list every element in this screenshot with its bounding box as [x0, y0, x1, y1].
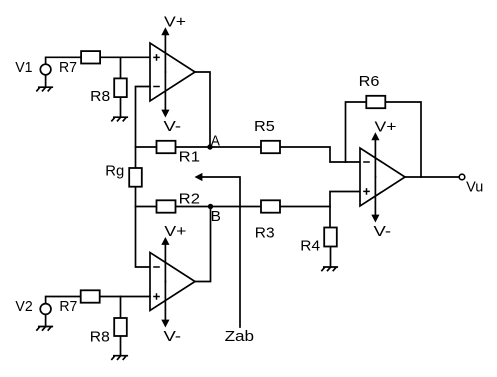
output terminal Vu [459, 174, 465, 180]
Zab measurement arrow [202, 177, 240, 327]
pin + of U3 [363, 188, 370, 195]
resistor R3 [261, 200, 280, 212]
resistor R7 (top) [81, 51, 100, 63]
wire U3 output to Vu terminal [405, 176, 459, 178]
svg-text:V+: V+ [375, 118, 397, 135]
resistor R5 [261, 141, 280, 153]
svg-text:R4: R4 [300, 238, 320, 255]
svg-text:Rg: Rg [105, 163, 124, 180]
svg-text:R8: R8 [90, 88, 110, 105]
wire tee to R8 (bottom) [120, 297, 122, 356]
resistor R4 [324, 228, 337, 247]
wire R3 node down through R4 to ground [329, 207, 332, 268]
wire U2 output up to node B [195, 207, 211, 282]
power V- arrow (U3) [374, 177, 376, 215]
resistor R2 [157, 200, 176, 212]
node A junction dot [207, 144, 212, 149]
pin - of U3 [363, 161, 370, 163]
pin + of U2 [153, 293, 160, 300]
wire node A horizontal run [136, 147, 361, 162]
svg-text:Zab: Zab [225, 328, 255, 345]
svg-text:R6: R6 [359, 73, 380, 90]
op-amp U1 (top) [150, 43, 195, 101]
ground (under R8 bottom) [111, 356, 128, 360]
svg-text:A: A [211, 133, 220, 150]
power V+ arrow (U1) [164, 35, 166, 72]
svg-text:V+: V+ [164, 13, 186, 30]
svg-text:R7: R7 [59, 59, 77, 76]
wire U1 - input feedback down to A net and Rg [136, 87, 151, 268]
svg-text:R1: R1 [179, 149, 200, 166]
resistor R8 (bottom) [114, 318, 127, 336]
svg-text:R2: R2 [179, 191, 200, 208]
svg-text:B: B [211, 208, 221, 225]
wire V1 to op1 + input [46, 57, 150, 64]
pin - of U2 [153, 266, 160, 268]
resistor R8 (top) [114, 78, 127, 97]
pin + of U1 [153, 54, 160, 61]
ground (under V2) [36, 327, 53, 331]
source terminal V2 [40, 304, 51, 315]
wire R6 feedback loop [346, 102, 422, 177]
svg-text:V+: V+ [164, 223, 186, 240]
power V- arrow (U1) [164, 72, 166, 110]
wire tee to R8 (top) [120, 57, 122, 117]
resistor Rg [129, 168, 142, 187]
resistor R1 [157, 141, 176, 153]
svg-text:V-: V- [164, 328, 182, 345]
wire node B horizontal run [136, 192, 361, 207]
wire V2 to ground [45, 315, 47, 327]
ground (under R8 top) [111, 117, 128, 121]
svg-text:V-: V- [374, 223, 392, 240]
wire U1 output down to node A [195, 72, 210, 147]
ground (under V1) [36, 87, 53, 91]
pin - of U1 [153, 86, 160, 88]
power V- arrow (U2) [164, 282, 166, 321]
source terminal V1 [40, 64, 51, 75]
ground (under R4) [321, 267, 338, 271]
svg-text:R3: R3 [255, 224, 275, 241]
svg-text:R7: R7 [59, 298, 77, 315]
svg-text:R5: R5 [254, 118, 275, 135]
svg-text:V2: V2 [15, 298, 32, 315]
op-amp U2 (bottom) [150, 253, 195, 311]
svg-text:V1: V1 [15, 59, 32, 76]
wire V2 to op2 + input [46, 297, 150, 304]
resistor R7 (bottom) [81, 290, 100, 302]
svg-text:R8: R8 [90, 328, 110, 345]
power V+ arrow (U3) [374, 140, 376, 177]
power V+ arrow (U2) [164, 245, 166, 282]
wire V1 to ground [45, 75, 47, 87]
node B junction dot [208, 204, 213, 209]
op-amp U3 (right) [360, 148, 405, 206]
resistor R6 [366, 96, 385, 108]
svg-text:Vu: Vu [466, 178, 483, 195]
svg-text:V-: V- [164, 118, 182, 135]
